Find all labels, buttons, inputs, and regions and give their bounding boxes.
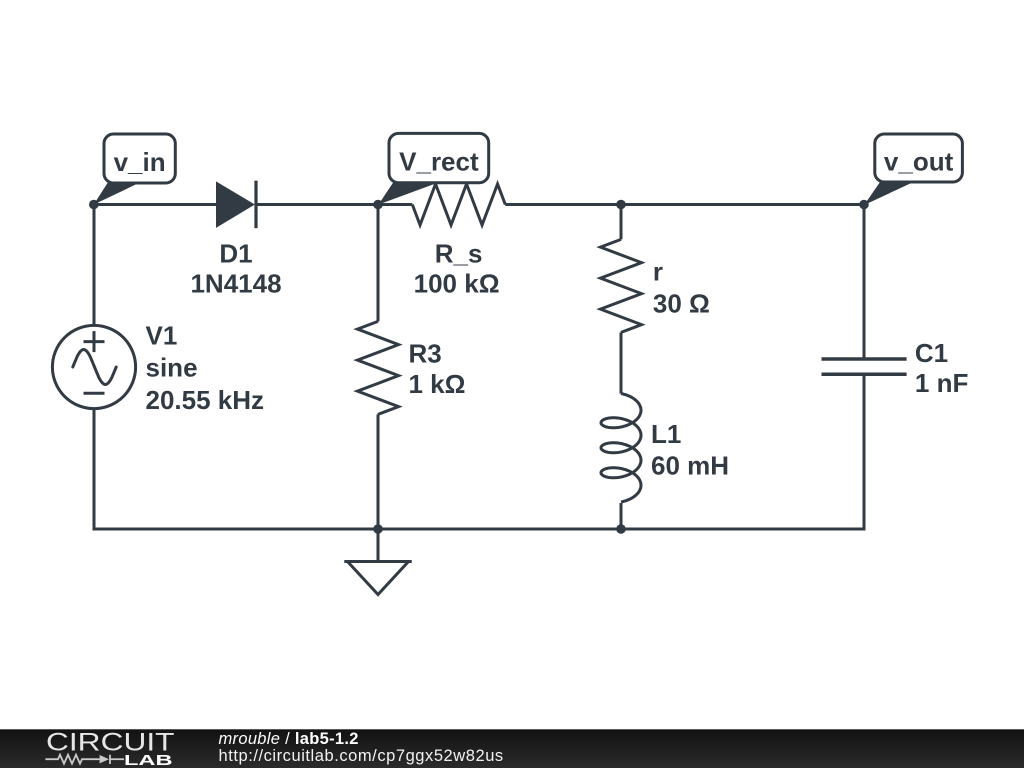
- voltage source V1: [52, 325, 135, 408]
- wire top rail: v_in node to D1 anode: [94, 203, 217, 206]
- svg-text:1 nF: 1 nF: [915, 368, 968, 398]
- ground: [344, 562, 411, 595]
- wire top rail: D1 cathode to R_s: [256, 203, 412, 206]
- svg-text:30 Ω: 30 Ω: [653, 289, 710, 319]
- junction dot node v_out: [859, 200, 869, 210]
- logo resistor-diode glyph: [45, 755, 124, 764]
- wire right branch: C1 down to bottom rail: [863, 374, 866, 530]
- wire right branch: v_out node down to C1: [863, 205, 866, 360]
- svg-text:C1: C1: [915, 338, 948, 368]
- svg-text:v_out: v_out: [884, 147, 954, 177]
- svg-text:V_rect: V_rect: [399, 147, 479, 177]
- capacitor C1: [822, 359, 907, 374]
- svg-text:100 kΩ: 100 kΩ: [414, 268, 500, 298]
- inductor L1: [601, 394, 641, 503]
- svg-text:sine: sine: [146, 353, 198, 383]
- svg-text:http://circuitlab.com/cp7ggx52: http://circuitlab.com/cp7ggx52w82us: [219, 747, 504, 765]
- wire ground stub: [377, 529, 380, 562]
- label R_s 100 kOhm: [414, 238, 500, 298]
- wire r branch: node C down to r: [620, 205, 623, 240]
- junction dot node C top: [616, 200, 626, 210]
- svg-text:1N4148: 1N4148: [190, 268, 281, 298]
- svg-text:R3: R3: [409, 339, 442, 369]
- svg-text:v_in: v_in: [114, 147, 166, 177]
- wire r branch: r down to L1: [620, 332, 623, 393]
- resistor r: [601, 239, 642, 332]
- wire r branch: L1 down to bottom rail: [620, 503, 623, 529]
- junction dot node v_in: [89, 200, 99, 210]
- label V1 sine 20.55 kHz: [146, 320, 265, 414]
- node v_in callout tail: [94, 183, 137, 205]
- svg-text:1 kΩ: 1 kΩ: [409, 369, 466, 399]
- svg-text:60 mH: 60 mH: [651, 450, 729, 480]
- node v_in callout box: [104, 134, 175, 183]
- svg-text:mrouble / lab5-1.2: mrouble / lab5-1.2: [219, 730, 359, 748]
- junction dot node V_rect: [373, 200, 383, 210]
- svg-text:R_s: R_s: [435, 238, 483, 268]
- svg-text:LAB: LAB: [124, 752, 173, 768]
- resistor R_s: [412, 184, 505, 225]
- svg-text:r: r: [653, 256, 663, 286]
- label C1 1 nF: [915, 338, 968, 398]
- svg-text:D1: D1: [219, 238, 252, 268]
- label r 30 Ohm: [653, 256, 710, 318]
- diode D1: [217, 181, 257, 229]
- footer bar: [0, 729, 1024, 768]
- svg-text:20.55 kHz: 20.55 kHz: [146, 385, 265, 415]
- wire bottom rail: [93, 528, 866, 531]
- label D1 1N4148: [190, 238, 281, 298]
- junction dot bottom rail at R3: [373, 524, 383, 534]
- node V_rect callout box: [389, 133, 489, 182]
- svg-text:V1: V1: [146, 320, 178, 350]
- wire middle branch: V_rect node down to R3: [377, 205, 380, 322]
- node v_out callout tail: [864, 182, 913, 205]
- wire left branch: v_in node down to V1: [93, 205, 96, 326]
- node v_out callout box: [875, 134, 963, 182]
- label R3 1 kOhm: [409, 339, 466, 400]
- wire left branch: V1 down to bottom rail: [93, 408, 96, 530]
- label L1 60 mH: [651, 419, 729, 481]
- logo glyph diode triangle: [100, 755, 109, 763]
- resistor R3: [358, 321, 399, 414]
- wire top rail: R_s to v_out node: [505, 203, 864, 206]
- node V_rect callout tail: [379, 183, 437, 205]
- svg-text:L1: L1: [651, 419, 681, 449]
- wire middle branch: R3 down to bottom rail: [377, 414, 380, 529]
- junction dot bottom rail at L1: [616, 524, 626, 534]
